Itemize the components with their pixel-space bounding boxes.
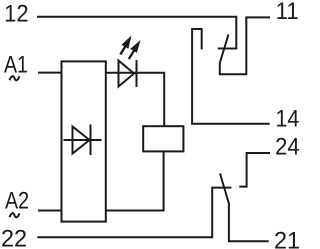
- diode D1 cathode bar: [90, 125, 92, 156]
- svg-text:11: 11: [276, 0, 299, 24]
- LED cathode bar: [136, 60, 138, 87]
- diode D1 triangle: [73, 127, 90, 154]
- svg-text:12: 12: [4, 0, 28, 27]
- wire from rectifier to LED and down to coil: [106, 73, 164, 126]
- wire coil bottom return to rectifier: [106, 151, 164, 210]
- relay coil K1: [143, 126, 183, 151]
- AC symbol under A2: [10, 213, 20, 217]
- svg-text:14: 14: [276, 104, 300, 131]
- diode D1 line: [64, 139, 102, 141]
- svg-text:A2: A2: [5, 187, 29, 214]
- wire 22 with NC fixed contact 22: [37, 188, 231, 238]
- svg-text:A1: A1: [4, 51, 28, 78]
- relay contact arm K1b (21-22 closed) and wire 21: [220, 174, 269, 242]
- LED arrow 2: [129, 40, 141, 59]
- svg-text:24: 24: [275, 133, 300, 160]
- wire 12 with NC fixed contact 12: [37, 17, 236, 49]
- svg-text:21: 21: [274, 228, 300, 249]
- wire A1: [38, 72, 61, 74]
- AC symbol under A1: [10, 76, 20, 80]
- svg-text:22: 22: [1, 226, 27, 249]
- rectifier box: [62, 61, 106, 221]
- wire 11 to contact pivot: [220, 17, 270, 74]
- wire 24 with NO fixed contact 24: [239, 153, 270, 187]
- relay contact arm K1a (11-12 closed): [220, 35, 228, 76]
- NO fixed contact 14 with wire 14: [192, 29, 270, 124]
- LED arrow 1: [120, 36, 131, 55]
- wire A2: [38, 210, 61, 212]
- LED triangle: [119, 61, 135, 87]
